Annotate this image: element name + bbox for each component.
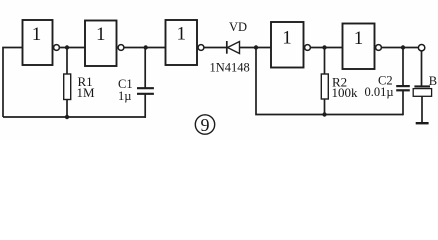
junction dot: D4 output / R2 node (322, 45, 326, 49)
wire: C1 bottom lead to rail (144, 94, 146, 118)
buzzer B body box (413, 89, 431, 97)
svg-text:0.01µ: 0.01µ (365, 85, 394, 99)
inverter bubble of D2 (118, 45, 124, 51)
wire: D4 output to D5 input (311, 47, 343, 49)
output terminal circle (418, 45, 424, 51)
gate D4 (inverter box) (271, 22, 304, 68)
junction dot: D2 output / C1 node (144, 45, 148, 49)
diode VD cathode bar (226, 41, 228, 54)
svg-text:1: 1 (354, 28, 364, 49)
junction dot: diode output / feedback node (254, 45, 258, 49)
svg-text:1: 1 (282, 28, 292, 49)
svg-text:1µ: 1µ (118, 89, 131, 103)
wire: left bottom rail (net of R1/C1/D1 input) (3, 116, 146, 118)
wire: feedback from diode node down to right rail (256, 48, 403, 115)
figure number circle (9) (195, 115, 214, 134)
gate D2 (inverter box) (85, 21, 117, 67)
resistor R2 (box symbol) (321, 74, 328, 99)
svg-text:1: 1 (177, 24, 187, 45)
junction dot: D1 output / R1 node (65, 45, 69, 49)
wire: D5 output to output terminal (382, 47, 419, 49)
svg-text:1N4148: 1N4148 (210, 61, 250, 75)
capacitor C2 top plate (396, 85, 410, 87)
wire: R2 top lead (324, 48, 326, 75)
inverter bubble of D4 (305, 45, 311, 51)
wire: C2 bottom lead to right rail (402, 90, 404, 115)
diode VD triangle (pointing left) (228, 42, 240, 54)
inverter bubble of D5 (376, 45, 382, 51)
wire: C1 top lead (144, 48, 146, 88)
capacitor C2 bottom plate (396, 89, 410, 91)
buzzer B bottom terminal bar (416, 122, 429, 124)
gate D1 (inverter box) (23, 20, 53, 65)
wire: buzzer B bottom lead (421, 96, 423, 122)
wire: buzzer B top lead (421, 51, 423, 86)
capacitor C1 top plate (137, 87, 154, 89)
capacitor C1 bottom plate (137, 93, 154, 95)
wire: R1 bottom lead to rail (66, 100, 68, 118)
svg-text:1: 1 (96, 24, 106, 45)
gate D5 (inverter box) (343, 24, 375, 70)
svg-text:1M: 1M (77, 85, 96, 100)
svg-text:B: B (429, 74, 437, 88)
wire: R2 bottom lead to right rail (324, 99, 326, 115)
junction dot: R2 to right rail (322, 112, 326, 116)
wire: D3 output to diode VD (204, 47, 228, 49)
buzzer B top plate (414, 85, 430, 87)
wire: R1 top lead (66, 48, 68, 75)
inverter bubble of D3 (198, 45, 204, 51)
junction dot: R1 to left rail (65, 115, 69, 119)
wire: D2 output to D3 input (124, 47, 166, 49)
svg-text:1: 1 (32, 24, 42, 45)
wire: diode VD to D4 input (240, 47, 272, 49)
svg-text:100k: 100k (332, 85, 359, 100)
wire: input of gate D1 from left rail (3, 48, 23, 118)
svg-text:VD: VD (229, 20, 247, 34)
wire: C2 top lead (402, 48, 404, 86)
junction dot: D5 output / C2 node (401, 45, 405, 49)
resistor R1 (box symbol) (64, 74, 71, 100)
wire: D1 output to D2 input (60, 47, 86, 49)
svg-text:9: 9 (201, 115, 210, 135)
inverter bubble of D1 (54, 45, 60, 51)
gate D3 (inverter box) (166, 20, 198, 65)
